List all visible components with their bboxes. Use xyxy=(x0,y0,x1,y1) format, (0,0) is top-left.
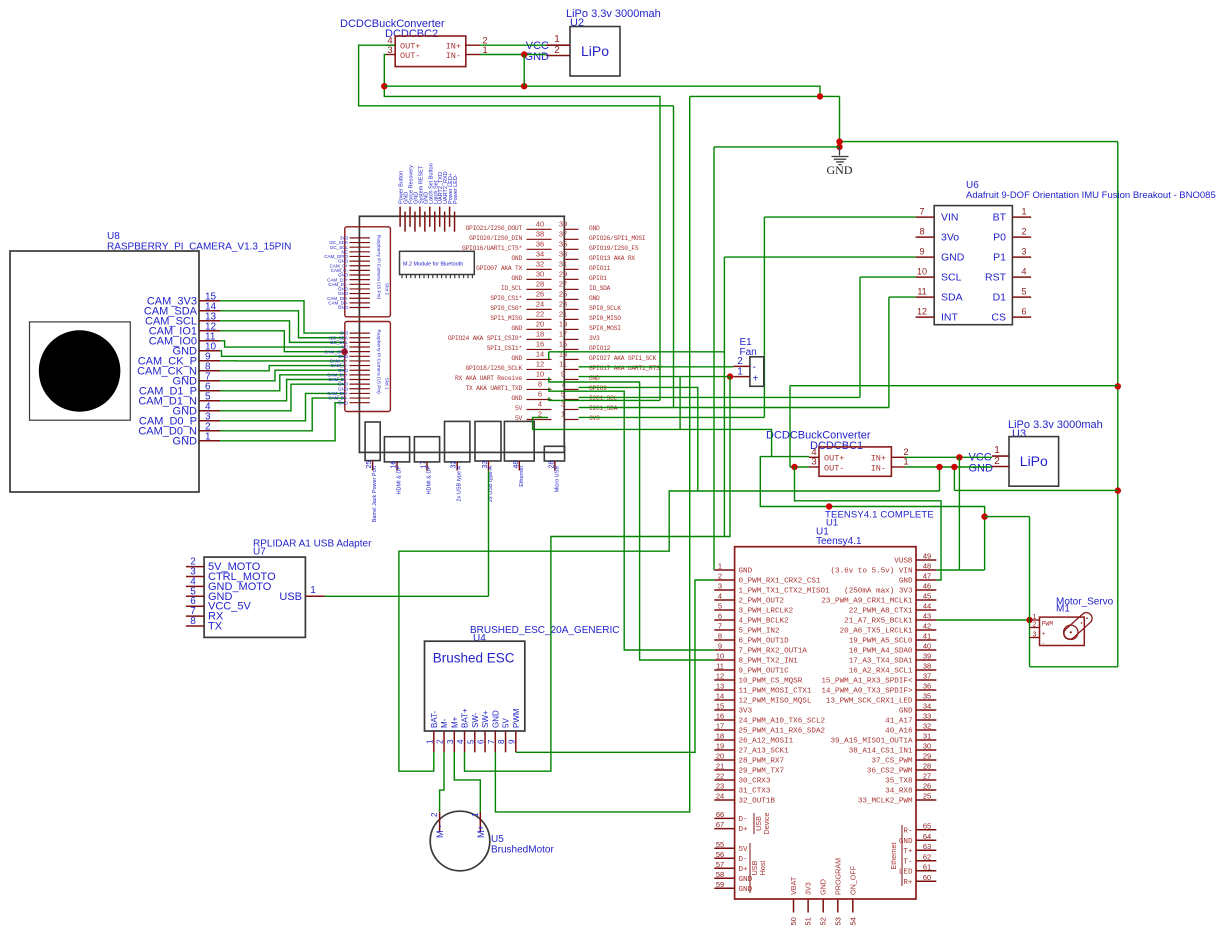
svg-text:GPIO18/I2S0_SCLK: GPIO18/I2S0_SCLK xyxy=(466,365,523,372)
svg-text:GPIO21/I2S0_DOUT: GPIO21/I2S0_DOUT xyxy=(466,225,523,232)
svg-text:5: 5 xyxy=(466,739,475,744)
svg-text:4: 4 xyxy=(538,399,542,408)
svg-text:29: 29 xyxy=(559,269,567,278)
svg-text:Host: Host xyxy=(758,861,767,876)
svg-text:SW-: SW- xyxy=(471,712,480,728)
svg-text:OUT-: OUT- xyxy=(824,464,844,474)
svg-text:GPIO11: GPIO11 xyxy=(589,265,611,272)
svg-text:Brushed ESC: Brushed ESC xyxy=(433,651,515,666)
svg-text:LiPo: LiPo xyxy=(581,43,609,59)
svg-text:14_PWM_A0_TX3_SPDIF>: 14_PWM_A0_TX3_SPDIF> xyxy=(821,688,913,696)
svg-text:3V3: 3V3 xyxy=(589,335,600,342)
svg-text:BrushedMotor: BrushedMotor xyxy=(491,845,554,856)
svg-text:(3.6v to 5.5v) VIN: (3.6v to 5.5v) VIN xyxy=(830,568,912,576)
svg-text:66: 66 xyxy=(716,810,724,819)
svg-text:27: 27 xyxy=(923,772,931,781)
svg-text:RX AKA UART Receive: RX AKA UART Receive xyxy=(455,375,523,382)
svg-text:11: 11 xyxy=(716,662,724,671)
svg-text:1: 1 xyxy=(903,457,908,468)
svg-text:1: 1 xyxy=(1033,614,1037,621)
svg-text:M-: M- xyxy=(440,718,449,728)
svg-text:(250mA max) 3V3: (250mA max) 3V3 xyxy=(844,588,913,596)
svg-text:27: 27 xyxy=(559,279,567,288)
svg-text:INT: INT xyxy=(941,312,959,324)
svg-text:5V: 5V xyxy=(739,846,749,854)
svg-text:5: 5 xyxy=(1021,287,1026,297)
svg-text:M -: M - xyxy=(435,825,445,838)
svg-text:Raspberry Pi Camera (15 Pin): Raspberry Pi Camera (15 Pin) xyxy=(376,330,382,395)
svg-text:10_PWM_CS_MQSR: 10_PWM_CS_MQSR xyxy=(739,678,803,686)
svg-text:Adafruit 9-DOF Orientation IMU: Adafruit 9-DOF Orientation IMU Fusion Br… xyxy=(966,190,1216,201)
svg-text:DCDCBC1: DCDCBC1 xyxy=(810,440,863,452)
svg-text:GND: GND xyxy=(739,568,753,576)
svg-text:9_PWM_OUT1C: 9_PWM_OUT1C xyxy=(739,668,790,676)
svg-text:11_PWM_MOSI_CTX1: 11_PWM_MOSI_CTX1 xyxy=(739,688,812,696)
svg-text:23_PWM_A9_CRX1_MCLK1: 23_PWM_A9_CRX1_MCLK1 xyxy=(821,598,913,606)
svg-text:ID_SCL: ID_SCL xyxy=(501,285,523,292)
svg-text:65: 65 xyxy=(923,821,931,830)
svg-text:15_PWM_A1_RX3_SPDIF<: 15_PWM_A1_RX3_SPDIF< xyxy=(821,678,913,686)
svg-text:VBAT: VBAT xyxy=(789,876,798,895)
svg-text:12: 12 xyxy=(536,359,544,368)
svg-text:42: 42 xyxy=(923,622,931,631)
svg-text:SPI0_CS0*: SPI0_CS0* xyxy=(490,305,522,312)
svg-text:GPIO13 AKA RX: GPIO13 AKA RX xyxy=(589,255,635,262)
svg-text:15: 15 xyxy=(559,339,567,348)
svg-text:40: 40 xyxy=(923,642,931,651)
svg-text:23: 23 xyxy=(559,299,567,308)
svg-text:28_PWM_RX7: 28_PWM_RX7 xyxy=(739,758,785,766)
svg-text:VIN: VIN xyxy=(941,212,959,224)
svg-text:26: 26 xyxy=(923,782,931,791)
svg-text:BAT+: BAT+ xyxy=(461,708,470,728)
svg-text:12_PWM_MISO_MQSL: 12_PWM_MISO_MQSL xyxy=(739,698,812,706)
svg-text:60: 60 xyxy=(923,873,931,882)
svg-text:18: 18 xyxy=(536,329,544,338)
svg-text:Device: Device xyxy=(762,813,771,835)
svg-text:25_PWM_A11_RX6_SDA2: 25_PWM_A11_RX6_SDA2 xyxy=(739,728,826,736)
svg-text:GPIO17 AKA UART1_RTS*: GPIO17 AKA UART1_RTS* xyxy=(589,365,664,372)
svg-text:3V3: 3V3 xyxy=(804,882,813,895)
svg-text:3: 3 xyxy=(1033,632,1037,639)
svg-text:+: + xyxy=(753,374,759,385)
svg-text:BRUSHED_ESC_20A_GENERIC: BRUSHED_ESC_20A_GENERIC xyxy=(470,625,620,636)
svg-text:TEENSY4.1 COMPLETE: TEENSY4.1 COMPLETE xyxy=(825,510,934,521)
svg-text:67: 67 xyxy=(716,820,724,829)
svg-text:GND: GND xyxy=(827,163,853,177)
svg-text:GPIO07 AKA TX: GPIO07 AKA TX xyxy=(476,265,522,272)
svg-text:22_PWM_A8_CTX1: 22_PWM_A8_CTX1 xyxy=(849,608,913,616)
svg-text:U4: U4 xyxy=(473,633,486,644)
svg-text:IN+: IN+ xyxy=(871,454,886,464)
svg-text:21: 21 xyxy=(716,762,724,771)
svg-text:SPI0_SCLK: SPI0_SCLK xyxy=(589,305,621,312)
svg-text:8: 8 xyxy=(718,632,722,641)
svg-text:USB: USB xyxy=(279,591,302,603)
svg-text:9: 9 xyxy=(919,247,924,257)
svg-text:OUT+: OUT+ xyxy=(400,42,420,52)
svg-text:GND: GND xyxy=(511,395,522,402)
svg-text:7: 7 xyxy=(718,622,722,631)
svg-text:26_A12_MOSI1: 26_A12_MOSI1 xyxy=(739,738,794,746)
svg-text:5V: 5V xyxy=(502,718,511,728)
svg-text:M+: M+ xyxy=(476,825,486,838)
svg-text:30: 30 xyxy=(536,269,544,278)
svg-text:RPLIDAR A1 USB Adapter: RPLIDAR A1 USB Adapter xyxy=(253,539,372,550)
svg-text:U3: U3 xyxy=(1012,428,1026,440)
svg-text:40_A16: 40_A16 xyxy=(885,728,913,736)
svg-text:19: 19 xyxy=(559,319,567,328)
svg-text:7: 7 xyxy=(919,207,924,217)
svg-text:30: 30 xyxy=(923,742,931,751)
svg-text:ON_OFF: ON_OFF xyxy=(848,865,857,895)
svg-text:9: 9 xyxy=(718,642,722,651)
svg-text:T-: T- xyxy=(903,858,912,866)
svg-text:24_PWM_A10_TX6_SCL2: 24_PWM_A10_TX6_SCL2 xyxy=(739,718,826,726)
svg-text:25: 25 xyxy=(559,289,567,298)
svg-text:4: 4 xyxy=(456,739,465,744)
svg-text:30_CRX3: 30_CRX3 xyxy=(739,778,771,786)
svg-text:1: 1 xyxy=(737,367,743,378)
svg-text:29: 29 xyxy=(923,752,931,761)
svg-text:19_PWM_A5_SCL0: 19_PWM_A5_SCL0 xyxy=(849,638,913,646)
svg-text:37: 37 xyxy=(923,672,931,681)
svg-text:38_A14_CS1_IN1: 38_A14_CS1_IN1 xyxy=(849,748,913,756)
svg-text:10: 10 xyxy=(917,267,927,277)
svg-text:SPI1_MISO: SPI1_MISO xyxy=(490,315,522,322)
svg-text:U8: U8 xyxy=(107,231,120,242)
svg-text:GND: GND xyxy=(491,710,500,728)
svg-text:3: 3 xyxy=(718,582,722,591)
svg-text:M+: M+ xyxy=(450,716,459,728)
svg-text:IN+: IN+ xyxy=(446,42,461,52)
svg-text:10: 10 xyxy=(716,652,724,661)
svg-text:Ethernet: Ethernet xyxy=(519,466,525,487)
svg-text:GND: GND xyxy=(969,463,994,475)
svg-text:SW+: SW+ xyxy=(481,710,490,728)
svg-text:1: 1 xyxy=(561,409,565,418)
svg-text:35: 35 xyxy=(559,239,567,248)
svg-text:17_A3_TX4_SDA1: 17_A3_TX4_SDA1 xyxy=(849,658,913,666)
svg-text:LiPo: LiPo xyxy=(1020,453,1048,469)
svg-text:39: 39 xyxy=(559,219,567,228)
svg-text:22: 22 xyxy=(716,772,724,781)
svg-text:GND: GND xyxy=(511,325,522,332)
svg-text:M1: M1 xyxy=(1056,604,1070,615)
svg-text:21_A7_RX5_BCLK1: 21_A7_RX5_BCLK1 xyxy=(844,618,913,626)
svg-text:PWM: PWM xyxy=(1042,621,1054,628)
svg-text:GND: GND xyxy=(899,708,913,716)
svg-text:9: 9 xyxy=(507,739,516,744)
svg-text:53: 53 xyxy=(833,917,842,925)
svg-text:49: 49 xyxy=(923,552,931,561)
svg-text:18: 18 xyxy=(716,732,724,741)
svg-text:3V3: 3V3 xyxy=(739,708,753,716)
svg-text:38: 38 xyxy=(923,662,931,671)
svg-text:Slot 2: Slot 2 xyxy=(384,283,390,296)
svg-text:34: 34 xyxy=(536,249,544,258)
svg-text:R+: R+ xyxy=(903,879,913,887)
svg-text:GND: GND xyxy=(511,255,522,262)
svg-text:2_PWM_OUT2: 2_PWM_OUT2 xyxy=(739,598,785,606)
svg-text:+: + xyxy=(1042,631,1046,638)
svg-text:OUT-: OUT- xyxy=(400,51,420,61)
svg-text:16: 16 xyxy=(536,339,544,348)
svg-text:GPIO20/I2S0_DIN: GPIO20/I2S0_DIN xyxy=(469,235,522,242)
svg-text:D+: D+ xyxy=(739,826,749,834)
svg-text:D1: D1 xyxy=(993,292,1007,304)
svg-text:Micro USB: Micro USB xyxy=(554,466,560,493)
svg-text:33: 33 xyxy=(559,249,567,258)
svg-text:11: 11 xyxy=(917,287,926,297)
svg-text:6: 6 xyxy=(538,389,542,398)
svg-text:GND: GND xyxy=(511,275,522,282)
svg-text:34: 34 xyxy=(923,702,931,711)
svg-text:5: 5 xyxy=(718,602,722,611)
svg-text:37_CS_PWM: 37_CS_PWM xyxy=(871,758,912,766)
svg-text:R-: R- xyxy=(903,827,912,835)
svg-text:7: 7 xyxy=(487,739,496,744)
svg-text:SPI1_CSI1*: SPI1_CSI1* xyxy=(487,345,523,352)
svg-text:PROGRAM: PROGRAM xyxy=(833,858,842,895)
svg-text:3: 3 xyxy=(1021,247,1026,257)
svg-text:31: 31 xyxy=(923,732,931,741)
svg-text:56: 56 xyxy=(716,850,724,859)
svg-text:RST: RST xyxy=(985,272,1007,284)
svg-text:0_PWM_RX1_CRX2_CS1: 0_PWM_RX1_CRX2_CS1 xyxy=(739,578,821,586)
svg-text:1_PWM_TX1_CTX2_MISO1: 1_PWM_TX1_CTX2_MISO1 xyxy=(739,588,831,596)
svg-text:36: 36 xyxy=(923,682,931,691)
svg-text:ID_SDA: ID_SDA xyxy=(589,285,611,292)
svg-text:I2C1_SDA: I2C1_SDA xyxy=(589,405,618,412)
svg-text:-: - xyxy=(753,362,756,373)
svg-text:SPI0_MISO: SPI0_MISO xyxy=(589,315,621,322)
svg-text:1: 1 xyxy=(554,34,560,45)
svg-text:52: 52 xyxy=(819,917,828,925)
svg-text:6_PWM_OUT1D: 6_PWM_OUT1D xyxy=(739,638,790,646)
svg-text:GND: GND xyxy=(338,400,349,405)
svg-text:33: 33 xyxy=(923,712,931,721)
svg-text:8: 8 xyxy=(538,379,542,388)
svg-text:41_A17: 41_A17 xyxy=(885,718,912,726)
svg-text:62: 62 xyxy=(923,852,931,861)
svg-text:D+: D+ xyxy=(739,866,749,874)
svg-text:GPIO27 AKA SPI1_SCK: GPIO27 AKA SPI1_SCK xyxy=(589,355,657,362)
svg-text:35_TX8: 35_TX8 xyxy=(885,778,913,786)
svg-text:P1: P1 xyxy=(993,252,1006,264)
svg-text:35: 35 xyxy=(923,692,931,701)
svg-text:GND: GND xyxy=(338,305,349,310)
svg-text:16_A2_RX4_SCL1: 16_A2_RX4_SCL1 xyxy=(849,668,913,676)
svg-text:2: 2 xyxy=(1021,227,1026,237)
svg-text:Barrel Jack Power Port: Barrel Jack Power Port xyxy=(372,466,378,523)
svg-text:D-: D- xyxy=(739,816,748,824)
svg-text:11: 11 xyxy=(559,359,567,368)
svg-text:GND: GND xyxy=(589,295,600,302)
svg-text:58: 58 xyxy=(716,870,724,879)
svg-text:IN-: IN- xyxy=(446,51,461,61)
svg-text:Ethernet: Ethernet xyxy=(889,842,898,869)
svg-text:57: 57 xyxy=(716,860,724,869)
svg-text:GND: GND xyxy=(819,879,828,895)
svg-text:38: 38 xyxy=(536,229,544,238)
svg-text:1: 1 xyxy=(471,812,480,817)
svg-text:2: 2 xyxy=(718,572,722,581)
svg-text:34_RX8: 34_RX8 xyxy=(885,788,913,796)
svg-text:32: 32 xyxy=(923,722,931,731)
svg-text:4: 4 xyxy=(718,592,722,601)
svg-text:2: 2 xyxy=(737,356,743,367)
svg-text:39: 39 xyxy=(923,652,931,661)
svg-text:7: 7 xyxy=(561,379,565,388)
svg-text:1: 1 xyxy=(310,585,316,596)
svg-text:32_OUT1B: 32_OUT1B xyxy=(739,798,776,806)
svg-text:26: 26 xyxy=(536,289,544,298)
svg-text:64: 64 xyxy=(923,832,931,841)
svg-text:2: 2 xyxy=(436,739,445,744)
svg-text:-: - xyxy=(1042,640,1046,647)
svg-text:M.2 Module for Bluetooth: M.2 Module for Bluetooth xyxy=(403,262,463,268)
svg-text:31: 31 xyxy=(559,259,567,268)
svg-text:33_MCLK2_PWM: 33_MCLK2_PWM xyxy=(858,798,913,806)
svg-text:55: 55 xyxy=(716,840,724,849)
svg-text:VUSB: VUSB xyxy=(894,558,913,566)
svg-text:3Vo: 3Vo xyxy=(941,232,959,244)
svg-text:CS: CS xyxy=(991,312,1006,324)
svg-text:8: 8 xyxy=(190,616,196,627)
svg-text:59: 59 xyxy=(716,880,724,889)
svg-text:LED: LED xyxy=(899,868,913,876)
svg-text:4_PWM_BCLK2: 4_PWM_BCLK2 xyxy=(739,618,790,626)
svg-text:BAT-: BAT- xyxy=(430,710,439,728)
svg-text:41: 41 xyxy=(923,632,931,641)
svg-text:5_PWM_IN2: 5_PWM_IN2 xyxy=(739,628,780,636)
svg-text:19: 19 xyxy=(716,742,724,751)
svg-text:8: 8 xyxy=(919,227,924,237)
svg-text:P0: P0 xyxy=(993,232,1006,244)
svg-text:GPIO12: GPIO12 xyxy=(589,345,611,352)
svg-text:46: 46 xyxy=(923,582,931,591)
svg-text:17: 17 xyxy=(716,722,724,731)
svg-text:T+: T+ xyxy=(903,848,913,856)
svg-text:OUT+: OUT+ xyxy=(824,454,844,464)
svg-text:GND: GND xyxy=(511,355,522,362)
svg-text:1: 1 xyxy=(205,431,211,442)
svg-text:2: 2 xyxy=(1033,622,1037,629)
svg-text:HDMI & DP: HDMI & DP xyxy=(427,466,433,495)
svg-text:5V: 5V xyxy=(515,405,523,412)
svg-text:63: 63 xyxy=(923,842,931,851)
svg-text:14: 14 xyxy=(716,692,724,701)
svg-text:9: 9 xyxy=(561,369,565,378)
svg-text:39_A15_MISO1_OUT1A: 39_A15_MISO1_OUT1A xyxy=(830,738,912,746)
svg-text:SDA: SDA xyxy=(941,292,963,304)
svg-text:3: 3 xyxy=(811,457,816,468)
svg-text:1: 1 xyxy=(1021,207,1026,217)
svg-text:4: 4 xyxy=(1021,267,1026,277)
svg-text:18_PWM_A4_SDA0: 18_PWM_A4_SDA0 xyxy=(849,648,913,656)
svg-text:3: 3 xyxy=(446,739,455,744)
svg-text:6: 6 xyxy=(718,612,722,621)
svg-text:12: 12 xyxy=(917,307,927,317)
svg-text:20: 20 xyxy=(716,752,724,761)
svg-text:U7: U7 xyxy=(253,547,266,558)
svg-text:SCL: SCL xyxy=(941,272,962,284)
svg-text:2: 2 xyxy=(430,812,439,817)
svg-text:3_PWM_LRCLK2: 3_PWM_LRCLK2 xyxy=(739,608,794,616)
svg-text:13_PWM_SCK_CRX1_LED: 13_PWM_SCK_CRX1_LED xyxy=(826,698,913,706)
svg-text:GPIO26/SPI1_MOSI: GPIO26/SPI1_MOSI xyxy=(589,235,646,242)
svg-text:36: 36 xyxy=(536,239,544,248)
svg-text:20_A6_TX5_LRCLK1: 20_A6_TX5_LRCLK1 xyxy=(840,628,913,636)
svg-text:29_PWM_TX7: 29_PWM_TX7 xyxy=(739,768,785,776)
svg-text:28: 28 xyxy=(923,762,931,771)
svg-text:13: 13 xyxy=(559,349,567,358)
svg-text:2: 2 xyxy=(994,456,1000,467)
svg-text:GND: GND xyxy=(899,578,913,586)
svg-text:2x USB type A: 2x USB type A xyxy=(457,466,463,502)
svg-text:Raspberry Pi Camera (15 Pin): Raspberry Pi Camera (15 Pin) xyxy=(376,235,382,300)
svg-text:U5: U5 xyxy=(491,834,504,845)
svg-text:Power LED-: Power LED- xyxy=(453,174,459,204)
svg-text:IN-: IN- xyxy=(871,464,886,474)
svg-text:D-: D- xyxy=(739,856,748,864)
svg-text:TX AKA UART1_TXD: TX AKA UART1_TXD xyxy=(466,385,523,392)
svg-text:3V3: 3V3 xyxy=(589,415,600,422)
svg-text:GPIO16/UART1_CTS*: GPIO16/UART1_CTS* xyxy=(462,245,522,252)
svg-text:27_A13_SCK1: 27_A13_SCK1 xyxy=(739,748,790,756)
svg-text:GND: GND xyxy=(525,51,550,63)
svg-text:51: 51 xyxy=(804,917,813,925)
svg-text:43: 43 xyxy=(923,612,931,621)
svg-text:GND: GND xyxy=(589,225,600,232)
svg-text:36_CS2_PWM: 36_CS2_PWM xyxy=(867,768,913,776)
svg-text:DCDCBC2: DCDCBC2 xyxy=(385,28,438,40)
svg-text:13: 13 xyxy=(716,682,724,691)
svg-text:61: 61 xyxy=(923,862,931,871)
svg-text:GND: GND xyxy=(899,838,913,846)
svg-text:8_PWM_TX2_IN1: 8_PWM_TX2_IN1 xyxy=(739,658,799,666)
svg-text:2: 2 xyxy=(554,45,560,56)
svg-text:Slot 1: Slot 1 xyxy=(384,378,390,391)
svg-text:25: 25 xyxy=(923,792,931,801)
svg-text:1: 1 xyxy=(425,739,434,744)
svg-text:16: 16 xyxy=(716,712,724,721)
svg-text:47: 47 xyxy=(923,572,931,581)
svg-text:GPIO1: GPIO1 xyxy=(589,275,607,282)
svg-text:17: 17 xyxy=(559,329,567,338)
svg-text:1: 1 xyxy=(718,562,722,571)
svg-text:SPI0_MOSI: SPI0_MOSI xyxy=(589,325,621,332)
svg-text:3: 3 xyxy=(387,45,392,56)
svg-text:32: 32 xyxy=(536,259,544,268)
svg-text:6: 6 xyxy=(1021,307,1026,317)
svg-text:TX: TX xyxy=(208,621,223,633)
svg-text:54: 54 xyxy=(848,917,857,925)
svg-text:48: 48 xyxy=(923,562,931,571)
svg-text:50: 50 xyxy=(789,917,798,925)
svg-text:40: 40 xyxy=(536,219,544,228)
svg-text:21: 21 xyxy=(559,309,567,318)
svg-text:15: 15 xyxy=(716,702,724,711)
svg-text:GPIO24 AKA SPI1_CSI0*: GPIO24 AKA SPI1_CSI0* xyxy=(448,335,523,342)
svg-text:45: 45 xyxy=(923,592,931,601)
svg-text:31_CTX3: 31_CTX3 xyxy=(739,788,771,796)
svg-text:1: 1 xyxy=(994,445,1000,456)
svg-text:10: 10 xyxy=(536,369,544,378)
svg-text:GND: GND xyxy=(173,435,198,447)
svg-text:23: 23 xyxy=(716,782,724,791)
